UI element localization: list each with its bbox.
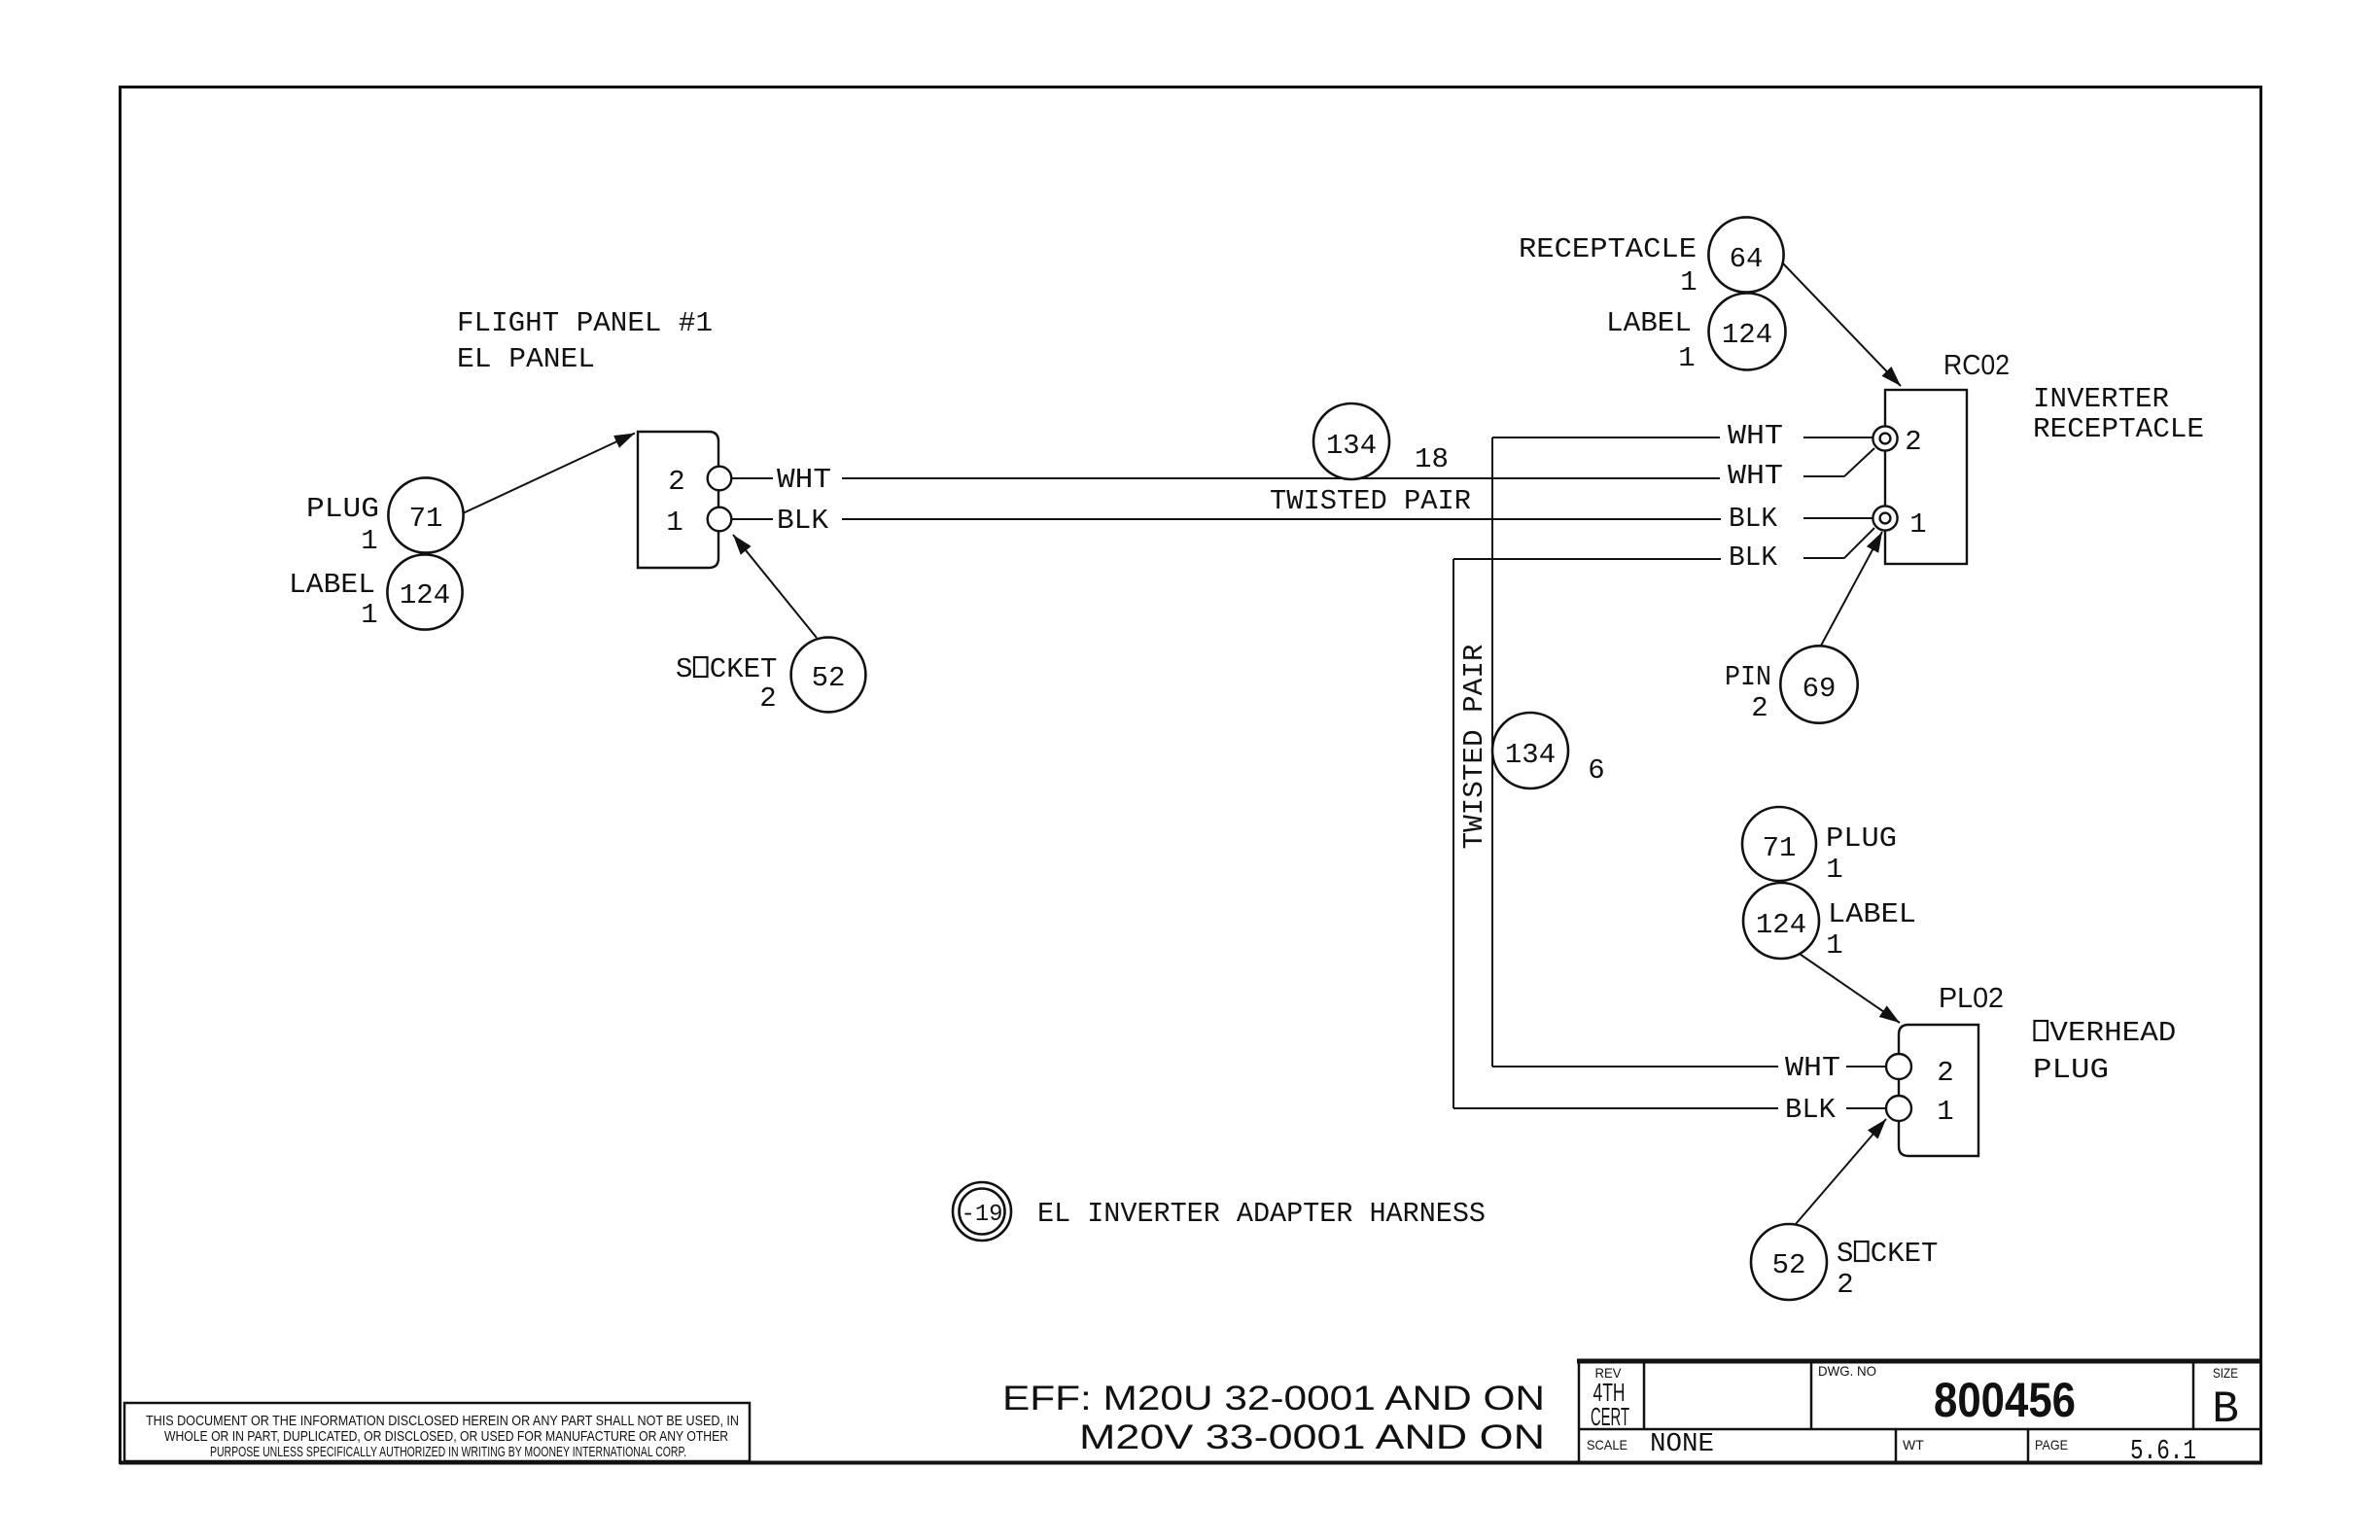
svg-text:1: 1 [666, 507, 682, 539]
svg-text:1: 1 [361, 525, 377, 557]
svg-text:B: B [2212, 1384, 2239, 1435]
svg-text:PLUG: PLUG [2033, 1054, 2109, 1086]
svg-text:69: 69 [1802, 673, 1837, 705]
svg-text:NONE: NONE [1650, 1430, 1714, 1459]
svg-text:S: S [1837, 1238, 1853, 1270]
svg-text:1: 1 [1909, 508, 1926, 541]
svg-text:124: 124 [1756, 909, 1806, 941]
svg-text:LABEL: LABEL [1606, 307, 1692, 339]
svg-text:CKET: CKET [1871, 1238, 1939, 1270]
svg-text:WHT: WHT [1728, 460, 1783, 492]
svg-text:WHT: WHT [777, 464, 831, 496]
svg-text:1: 1 [1937, 1096, 1953, 1128]
svg-text:1: 1 [1678, 342, 1695, 374]
svg-text:52: 52 [812, 662, 846, 694]
svg-text:RC02: RC02 [1943, 350, 2010, 381]
svg-text:1: 1 [1680, 266, 1697, 298]
svg-text:FLIGHT PANEL #1: FLIGHT PANEL #1 [457, 307, 713, 339]
svg-text:SIZE: SIZE [2213, 1365, 2238, 1381]
svg-text:RECEPTACLE: RECEPTACLE [1519, 233, 1697, 265]
svg-text:TWISTED PAIR: TWISTED PAIR [1458, 645, 1490, 850]
svg-text:-19: -19 [962, 1202, 1003, 1228]
svg-text:DWG. NO: DWG. NO [1818, 1363, 1876, 1379]
svg-text:PURPOSE UNLESS SPECIFICALLY AU: PURPOSE UNLESS SPECIFICALLY AUTHORIZED I… [210, 1445, 686, 1460]
svg-text:PIN: PIN [1725, 661, 1771, 693]
svg-text:CERT: CERT [1591, 1402, 1629, 1431]
svg-text:BLK: BLK [1729, 503, 1778, 535]
svg-text:71: 71 [1763, 832, 1797, 864]
svg-text:800456: 800456 [1934, 1373, 2076, 1427]
svg-text:BLK: BLK [777, 505, 829, 537]
svg-text:2: 2 [1751, 692, 1767, 724]
svg-text:EFF: M20U 32-0001 AND ON: EFF: M20U 32-0001 AND ON [1002, 1380, 1545, 1417]
svg-text:64: 64 [1730, 243, 1764, 275]
svg-text:52: 52 [1772, 1249, 1806, 1281]
svg-text:THIS DOCUMENT OR THE INFORMATI: THIS DOCUMENT OR THE INFORMATION DISCLOS… [146, 1414, 739, 1429]
svg-text:2: 2 [1837, 1269, 1853, 1301]
svg-text:VERHEAD: VERHEAD [2049, 1017, 2176, 1049]
svg-text:2: 2 [668, 466, 684, 498]
svg-text:134: 134 [1505, 739, 1556, 771]
svg-text:18: 18 [1415, 443, 1449, 475]
svg-text:PLUG: PLUG [1826, 822, 1897, 855]
svg-text:PAGE: PAGE [2035, 1437, 2068, 1452]
svg-text:LABEL: LABEL [289, 569, 375, 601]
svg-text:1: 1 [361, 599, 377, 631]
svg-text:2: 2 [1905, 426, 1921, 458]
svg-text:WHOLE OR IN PART, DUPLICATED,: WHOLE OR IN PART, DUPLICATED, OR DISCLOS… [164, 1429, 728, 1445]
svg-text:SCALE: SCALE [1587, 1437, 1627, 1452]
svg-text:EL INVERTER ADAPTER HARNESS: EL INVERTER ADAPTER HARNESS [1037, 1198, 1486, 1230]
svg-text:BLK: BLK [1785, 1094, 1837, 1126]
svg-text:2: 2 [1937, 1057, 1953, 1089]
svg-text:124: 124 [400, 579, 450, 612]
svg-text:INVERTER: INVERTER [2033, 383, 2169, 415]
svg-text:PLUG: PLUG [306, 493, 379, 525]
svg-text:LABEL: LABEL [1828, 898, 1916, 930]
svg-text:CKET: CKET [710, 653, 778, 685]
svg-text:RECEPTACLE: RECEPTACLE [2033, 413, 2204, 445]
svg-text:2: 2 [759, 682, 776, 715]
svg-text:1: 1 [1826, 854, 1842, 886]
svg-text:EL PANEL: EL PANEL [457, 343, 595, 375]
svg-text:BLK: BLK [1729, 542, 1778, 574]
svg-text:1: 1 [1826, 929, 1842, 962]
svg-text:6: 6 [1588, 754, 1604, 787]
svg-text:WHT: WHT [1728, 420, 1783, 452]
svg-text:S: S [676, 653, 692, 685]
svg-text:134: 134 [1326, 430, 1377, 462]
svg-text:TWISTED PAIR: TWISTED PAIR [1270, 485, 1471, 517]
svg-text:M20V 33-0001 AND ON: M20V 33-0001 AND ON [1079, 1418, 1545, 1456]
svg-text:5.6.1: 5.6.1 [2130, 1435, 2196, 1467]
svg-text:PL02: PL02 [1939, 983, 2004, 1014]
svg-text:WHT: WHT [1785, 1052, 1840, 1084]
svg-text:71: 71 [409, 503, 443, 535]
svg-text:124: 124 [1722, 319, 1772, 351]
svg-text:WT: WT [1903, 1437, 1924, 1452]
